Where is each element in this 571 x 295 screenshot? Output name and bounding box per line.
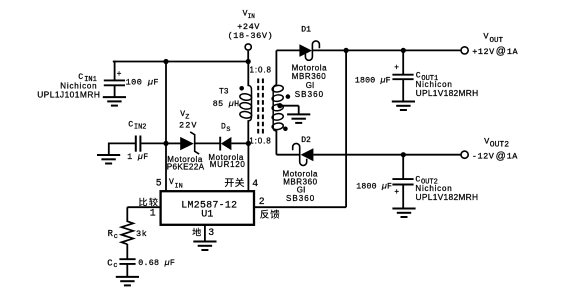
polarity dot secondary top — [286, 94, 291, 99]
svg-text:OUT: OUT — [490, 37, 504, 45]
svg-text:IN: IN — [248, 13, 256, 20]
svg-text:MUR120: MUR120 — [210, 160, 246, 169]
label RC 3k — [108, 229, 148, 241]
svg-text:c: c — [114, 233, 118, 241]
svg-text:D: D — [221, 123, 226, 132]
svg-text:UPL1J101MRH: UPL1J101MRH — [37, 90, 100, 100]
svg-text:3: 3 — [208, 227, 214, 238]
svg-text:1800 µF: 1800 µF — [356, 182, 392, 191]
label COUT1 Nichicon UPL1V182MRH — [416, 72, 479, 98]
junction COUT2 node — [401, 152, 406, 157]
label 1:0.8 bottom — [249, 137, 271, 146]
junction feedback tap — [344, 48, 349, 53]
svg-text:GI: GI — [306, 81, 315, 90]
diode DS MUR120 — [220, 137, 248, 151]
svg-text:R: R — [108, 229, 114, 239]
node secondary center tap — [277, 103, 298, 114]
label D1 — [301, 25, 311, 34]
svg-text:OUT2: OUT2 — [490, 141, 509, 150]
capacitor COUT1 1800uF — [392, 50, 413, 100]
wire -12V output rail — [313, 154, 461, 156]
wire +12V output rail — [312, 49, 461, 51]
svg-text:1: 1 — [150, 208, 156, 219]
svg-text:UPL1V182MRH: UPL1V182MRH — [416, 192, 479, 202]
svg-text:IN: IN — [175, 182, 183, 190]
polarity dot secondary bottom — [283, 127, 288, 132]
pin 1 compare wire — [127, 207, 160, 222]
ground left of CIN2 — [97, 143, 120, 164]
wire RC to CC — [126, 244, 128, 259]
svg-text:U1: U1 — [201, 210, 213, 221]
svg-text:P6KE22A: P6KE22A — [167, 162, 205, 171]
transformer core — [258, 79, 263, 135]
svg-text:1A: 1A — [507, 47, 519, 57]
capacitor CC 0.68uF — [119, 259, 135, 276]
label 1:0.8 top — [250, 65, 272, 74]
svg-text:SB360: SB360 — [286, 194, 315, 203]
svg-text:85 µH: 85 µH — [213, 100, 240, 109]
diode D2 MBR360 — [293, 143, 314, 165]
terminal VIN input — [245, 44, 251, 62]
junction COUT1 node — [401, 48, 406, 53]
svg-text:3k: 3k — [136, 229, 147, 239]
svg-text:4: 4 — [252, 178, 258, 189]
label 1800 uF (COUT2) — [356, 182, 392, 191]
pin 4 switch label — [225, 178, 258, 189]
zener VZ P6KE22A — [166, 132, 220, 154]
svg-text:C: C — [128, 120, 133, 129]
capacitor COUT2 1800uF — [392, 155, 413, 208]
label CIN1 Nichicon UPL1J101MRH — [37, 73, 100, 100]
wire top input rail — [113, 61, 249, 63]
wire secondary top to D1 — [276, 50, 300, 85]
label COUT2 Nichicon UPL1V182MRH — [415, 176, 478, 203]
junction switch node — [246, 141, 251, 146]
svg-text:SB360: SB360 — [295, 90, 324, 99]
capacitor CIN1 100uF — [104, 61, 125, 97]
wire feedback from +12V rail to pin2 — [254, 50, 346, 207]
svg-text:1800 µF: 1800 µF — [355, 76, 391, 85]
svg-text:1A: 1A — [507, 152, 519, 162]
pin 1 compare label — [139, 198, 158, 219]
svg-text:+: + — [117, 71, 122, 79]
svg-text:-12V: -12V — [472, 152, 495, 162]
label 1800 uF (COUT1) — [355, 76, 391, 85]
label VOUT2 -12V@1A — [472, 136, 518, 161]
junction VIN snubber node — [163, 141, 168, 146]
svg-text:1:0.8: 1:0.8 — [249, 137, 271, 146]
wire VIN to primary — [247, 62, 249, 87]
svg-text:V: V — [483, 32, 489, 42]
svg-text:D2: D2 — [301, 136, 311, 145]
wire junction to pin 5 — [165, 143, 167, 191]
label Motorola MUR120 — [208, 153, 245, 169]
wire VIN vertical branch — [165, 62, 167, 144]
ground at center tap — [287, 114, 310, 123]
label 100 uF — [126, 77, 159, 87]
pin 3 ground wire — [204, 225, 206, 241]
label Motorola P6KE22A — [167, 155, 205, 171]
svg-text:2: 2 — [259, 196, 265, 207]
transformer T3 primary winding — [239, 85, 252, 121]
svg-text:C: C — [107, 259, 112, 269]
svg-text:T3: T3 — [219, 87, 229, 96]
svg-text:+: + — [394, 189, 399, 197]
svg-text:1:0.8: 1:0.8 — [250, 65, 272, 74]
polarity dot primary — [239, 86, 244, 91]
label Motorola MBR360 GI SB360 (D1) — [292, 64, 328, 99]
pin 3 ground label — [192, 227, 214, 238]
svg-text:c: c — [113, 262, 117, 270]
ground below COUT1 — [392, 102, 415, 111]
node VOUT2 terminal — [461, 151, 468, 158]
label D2 — [301, 136, 311, 145]
transformer T3 secondary winding — [272, 85, 284, 131]
IC U1 LM2587-12 — [161, 191, 254, 225]
svg-text:@: @ — [496, 151, 506, 162]
svg-text:V: V — [169, 178, 174, 187]
wire switch node to pin4 — [247, 143, 249, 191]
capacitor CIN2 1uF — [109, 136, 166, 152]
label VZ 22V — [179, 110, 198, 130]
label VIN +24V (18-36V) — [228, 9, 274, 41]
svg-text:+: + — [394, 64, 399, 72]
label Motorola MBR360 GI SB360 (D2) — [283, 169, 319, 203]
svg-text:100 µF: 100 µF — [126, 77, 159, 87]
ground below COUT2 — [392, 209, 415, 218]
label VOUT +12V@1A — [472, 32, 518, 58]
label CIN2 1uF — [127, 120, 148, 162]
svg-text:0.68 µF: 0.68 µF — [138, 259, 175, 268]
diode D1 MBR360 — [299, 41, 319, 60]
svg-text:22V: 22V — [179, 121, 198, 131]
label CC 0.68uF — [107, 259, 175, 271]
label T3 85uH — [213, 87, 240, 109]
ground below CC — [116, 277, 139, 286]
junction VIN rail — [246, 59, 251, 64]
wire primary bottom to switch node — [247, 120, 249, 143]
ground at pin 3 — [193, 242, 216, 251]
svg-text:(18-36V): (18-36V) — [228, 31, 274, 41]
svg-text:5: 5 — [156, 178, 162, 189]
wire secondary bottom to D2 — [276, 130, 299, 154]
svg-text:@: @ — [496, 46, 506, 57]
pin 2 feedback label — [259, 196, 280, 218]
node VOUT terminal — [461, 47, 468, 54]
svg-text:S: S — [226, 126, 230, 134]
junction rail to VIN branch — [163, 59, 168, 64]
svg-text:1 µF: 1 µF — [127, 153, 148, 162]
svg-text:+12V: +12V — [472, 47, 495, 57]
svg-text:D1: D1 — [301, 25, 311, 34]
label DS — [221, 123, 230, 134]
svg-text:UPL1V182MRH: UPL1V182MRH — [416, 88, 479, 98]
svg-text:IN2: IN2 — [134, 124, 147, 132]
ground below CIN1 — [103, 97, 126, 106]
svg-text:MBR360: MBR360 — [292, 72, 326, 81]
pin 5 VIN label — [156, 178, 183, 191]
resistor RC 3k — [121, 221, 133, 244]
